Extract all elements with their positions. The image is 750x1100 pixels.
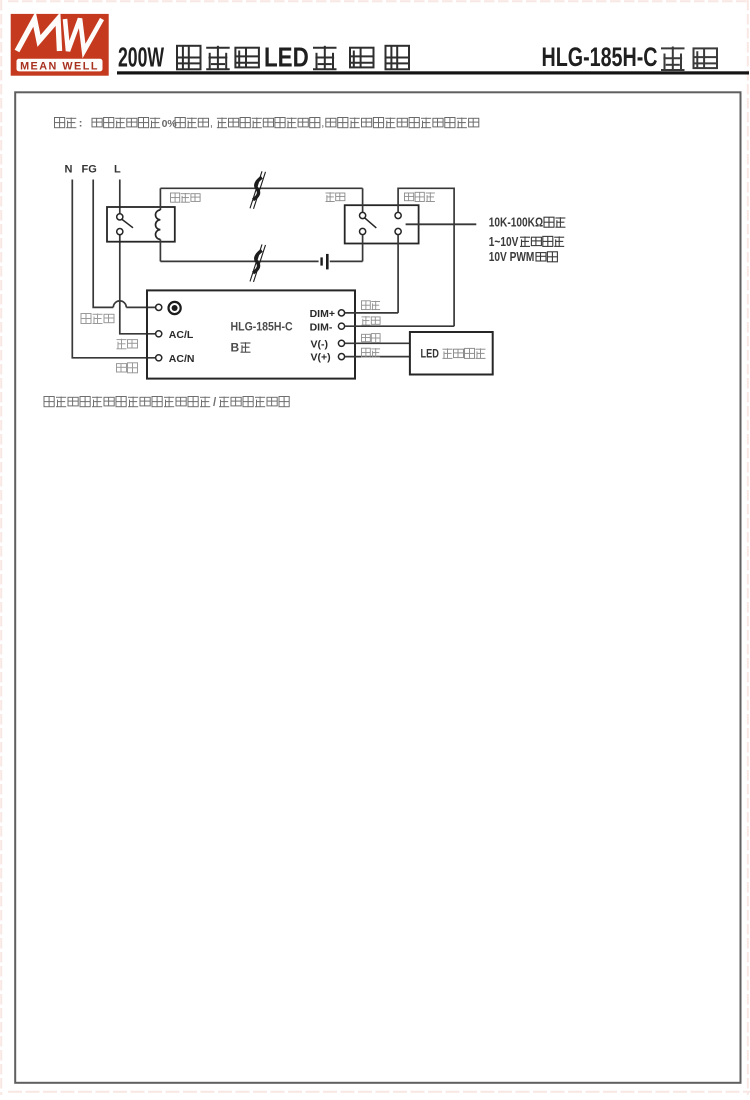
svg-text:200W: 200W bbox=[118, 41, 165, 72]
wire color label brown bbox=[117, 339, 138, 349]
svg-text:HLG-185H-C: HLG-185H-C bbox=[542, 43, 658, 73]
svg-text:DIM+: DIM+ bbox=[310, 308, 335, 320]
switch label kai-guan bbox=[326, 192, 345, 201]
text zhi-liu-dian-ya bbox=[520, 236, 564, 246]
svg-text:,: , bbox=[210, 118, 213, 130]
wire DIM+ bbox=[345, 312, 398, 314]
title CJK heng-liu-xing bbox=[177, 46, 259, 70]
svg-text:AC/N: AC/N bbox=[169, 353, 195, 365]
svg-text:N: N bbox=[65, 163, 73, 175]
title underline bbox=[117, 71, 749, 74]
LED load box bbox=[410, 332, 493, 375]
wire relay coil to switch (top) bbox=[160, 187, 362, 189]
earth symbol bbox=[169, 302, 181, 314]
wire color label blue bbox=[117, 363, 138, 373]
wire pot bottom to DIM+ bbox=[397, 235, 399, 313]
svg-text:10V PWM: 10V PWM bbox=[489, 250, 535, 264]
wire break symbol top bbox=[250, 171, 266, 209]
wire FG to terminal bbox=[126, 306, 155, 308]
title CJK qi bbox=[386, 46, 410, 70]
title CJK xi bbox=[661, 47, 685, 71]
svg-text:1~10V: 1~10V bbox=[489, 235, 519, 249]
driver U1 type CJK xing bbox=[241, 342, 251, 352]
svg-text:V(+): V(+) bbox=[311, 352, 331, 364]
terminal FG circle bbox=[156, 304, 162, 310]
note text bei-zhu line bbox=[55, 118, 479, 130]
terminal DIM+ circle bbox=[338, 310, 344, 316]
wire break symbol bottom bbox=[250, 244, 266, 282]
driver U1 box HLG-185H-C bbox=[147, 290, 355, 378]
terminal V(+) circle bbox=[338, 354, 344, 360]
svg-text:L: L bbox=[114, 163, 121, 175]
svg-text:HLG-185H-C: HLG-185H-C bbox=[231, 321, 293, 334]
svg-text:MEAN WELL: MEAN WELL bbox=[20, 60, 99, 72]
dimming options text 10K-100K ohm bbox=[489, 215, 543, 229]
switch S1 contact bbox=[360, 188, 377, 261]
LED load label CJK zhao-ming-she-bei bbox=[443, 348, 486, 358]
wire V(+) to LED load bbox=[345, 356, 410, 358]
svg-text:LED: LED bbox=[264, 42, 309, 73]
wire color label green/yellow bbox=[81, 314, 114, 324]
battery BT1 bbox=[320, 254, 328, 270]
text dian-zu bbox=[544, 217, 565, 227]
relay label ji-dian-qi bbox=[171, 193, 201, 202]
wire relay coil to switch (bottom) bbox=[160, 260, 318, 262]
svg-text:FG: FG bbox=[82, 163, 97, 175]
title CJK dong bbox=[350, 48, 374, 68]
svg-text:V(-): V(-) bbox=[311, 338, 329, 350]
potentiometer pointer line to note text bbox=[406, 223, 477, 225]
title CJK qu bbox=[313, 46, 337, 70]
title 200W bbox=[118, 41, 165, 72]
relay K1 contact bbox=[117, 214, 133, 235]
wire color label blue bbox=[362, 334, 381, 343]
wire FG vertical bbox=[93, 180, 113, 308]
wire N vertical + AC/N run bbox=[72, 180, 155, 358]
wire L vertical bbox=[119, 180, 121, 214]
text xin-hao bbox=[536, 252, 557, 262]
wire color label gray bbox=[362, 316, 381, 325]
wire DIM- bbox=[345, 325, 454, 327]
wire dimmer top run bbox=[398, 188, 454, 326]
regulator label tiao-jie-qi bbox=[405, 192, 435, 201]
wire V(-) to LED load bbox=[345, 342, 410, 344]
terminal AC/N circle bbox=[156, 355, 162, 361]
svg-text:B: B bbox=[231, 341, 240, 355]
wire color label purple bbox=[362, 301, 381, 310]
relay K1 coil bbox=[156, 188, 161, 261]
svg-text:,: , bbox=[321, 118, 324, 130]
wire color label brown bbox=[362, 348, 381, 357]
title CJK lie bbox=[694, 48, 718, 68]
wire relay contact to AC/L bbox=[120, 235, 156, 334]
svg-text:LED: LED bbox=[421, 349, 440, 361]
terminal DIM- circle bbox=[338, 323, 344, 329]
wire FG hop over L wire bbox=[113, 301, 126, 308]
switch/potentiometer box bbox=[345, 205, 419, 243]
svg-text:AC/L: AC/L bbox=[169, 329, 194, 341]
terminal V(-) circle bbox=[338, 340, 344, 346]
MEAN WELL logo bbox=[11, 14, 109, 76]
svg-text:10K-100KΩ: 10K-100KΩ bbox=[489, 215, 543, 229]
svg-text:DIM-: DIM- bbox=[310, 321, 333, 333]
relay K1 box bbox=[107, 207, 175, 242]
caption use a switch and relay to turn on/off bbox=[44, 397, 289, 410]
potentiometer RV1 terminals bbox=[395, 212, 401, 234]
svg-text::: : bbox=[79, 118, 83, 130]
terminal AC/L circle bbox=[156, 331, 162, 337]
